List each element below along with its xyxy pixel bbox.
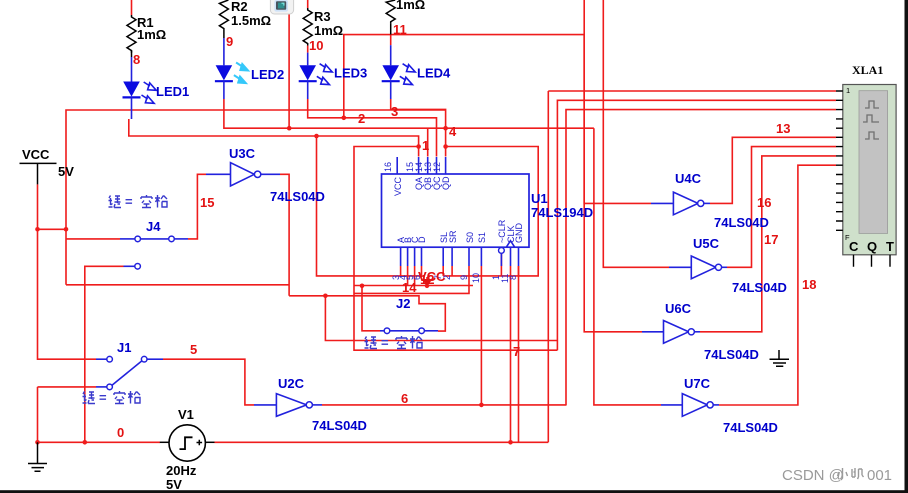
svg-text:1: 1 [422,138,429,153]
wire XLA ch2 [557,100,836,350]
resistor R2 [219,0,271,38]
svg-text:16: 16 [383,162,393,172]
svg-text:=: = [125,194,133,209]
op-amp U6C inverter [642,301,759,362]
voltage source V1 [160,407,215,492]
svg-text:9: 9 [226,34,233,49]
switch J2 [365,296,439,350]
LED LED1 [123,57,190,119]
wire bottom ground rail [38,266,549,442]
border bottom [0,490,908,493]
wire XLA ch3 and S1/net6 column [325,110,836,406]
svg-text:U1: U1 [531,191,548,206]
svg-text:SR: SR [448,230,458,243]
svg-text:14: 14 [402,280,417,295]
svg-text:1mΩ: 1mΩ [314,23,343,38]
svg-text:74LS04D: 74LS04D [723,420,778,435]
svg-text:J2: J2 [396,296,410,311]
svg-text:LED4: LED4 [417,66,451,81]
wire U3C output column down to lineP [280,174,289,295]
wire XLA ch1 clock column [548,91,836,442]
resistor R4 [386,0,425,35]
svg-text:5V: 5V [166,477,182,492]
svg-text:CSDN @: CSDN @ [782,467,844,484]
svg-text:10: 10 [471,273,481,283]
node net6 S1 dot [479,403,484,408]
op-amp U7C inverter [661,376,778,435]
wire net4 LED2 row to pin14 and east column [224,99,594,157]
switch J1 [83,340,164,405]
svg-text:1mΩ: 1mΩ [396,0,425,12]
svg-text:=: = [381,335,389,350]
wire VCC vertical and J1 feeds [38,184,97,442]
node pin12 lower dot [443,144,448,149]
svg-text:J1: J1 [117,340,131,355]
svg-text:VCC: VCC [393,176,403,196]
VCC power symbol [20,147,75,184]
node VCC dot2 [64,227,69,232]
wire VCC red symbol drop [426,277,428,286]
wire QD east line to SR/GND row [443,147,538,276]
svg-text:LED2: LED2 [251,67,284,82]
left pin stubs [836,91,843,230]
svg-text:QD: QD [441,176,451,190]
op-amp U2C inverter [254,376,367,433]
watermark [782,467,892,484]
wire VCC distribution top: col66 + y110 line [66,110,446,285]
logic analyzer XLA1 [836,63,896,267]
svg-text:S1: S1 [477,232,487,243]
svg-text:LED1: LED1 [156,84,189,99]
red VCC net symbol with 12 overlap [418,269,446,287]
switch J4 [109,194,189,269]
svg-text:R3: R3 [314,9,331,24]
svg-text:13: 13 [776,121,790,136]
wire net5 J1 pole to U2C input [163,359,254,405]
wire SL SR stubs to QD row [443,266,452,276]
ground right [770,350,790,366]
node pin12 upper dot [443,126,448,131]
wire S0 row [354,266,469,293]
wire net3 LED4 cathode to QD column [391,99,446,157]
svg-text:18: 18 [802,277,816,292]
svg-text:1.5mΩ: 1.5mΩ [231,13,271,28]
svg-text:S0: S0 [465,232,475,243]
svg-text:16: 16 [757,195,771,210]
svg-text:001: 001 [867,467,892,484]
svg-text:U2C: U2C [278,376,305,391]
node pin15 dot [416,144,421,149]
svg-text:1mΩ: 1mΩ [137,27,166,42]
wire J4 pole feed [66,238,120,240]
svg-text:11: 11 [393,22,407,37]
wire net15 J4 to U3C input [188,174,206,239]
node LED2 row dot [287,126,292,131]
svg-text:D: D [417,236,427,243]
node net2 dot [342,116,347,121]
node ground rail dot2 [83,440,88,445]
svg-text:J4: J4 [146,219,161,234]
svg-text:20Hz: 20Hz [166,463,197,478]
bottom pins [854,255,891,267]
svg-text:U3C: U3C [229,146,256,161]
svg-text:12: 12 [432,162,442,172]
LED LED4 [382,35,451,99]
svg-text:74LS04D: 74LS04D [704,347,759,362]
op-amp U3C inverter [206,146,325,204]
svg-text:5: 5 [190,342,197,357]
wire net6 U2C out to S1 [322,266,566,405]
svg-text:8: 8 [133,52,140,67]
wire net11 horizontal R4/LED4 rail [344,35,584,118]
resistor R1 [127,0,166,57]
CLK edge triangle [506,241,514,248]
svg-text:Q: Q [867,239,877,254]
wire net13 U4C out to XLA [710,137,836,203]
resistor R3 [303,0,343,46]
svg-text:0: 0 [117,425,124,440]
svg-text:74LS04D: 74LS04D [714,215,769,230]
svg-text:V1: V1 [178,407,194,422]
wire net18 U7C out to XLA [719,165,836,405]
svg-text:6: 6 [401,391,408,406]
svg-text:=: = [99,390,107,405]
svg-text:74LS04D: 74LS04D [270,189,325,204]
svg-text:LED3: LED3 [334,66,367,81]
svg-text:10: 10 [309,38,323,53]
node lineP dot [323,294,328,299]
wire net2 LED3 to pin13 [308,99,437,157]
node ground rail dot1 [35,440,40,445]
svg-text:VCC: VCC [22,147,50,162]
wire lineP J2-right loop [66,285,445,331]
svg-text:74LS04D: 74LS04D [732,280,787,295]
bottom pin stubs [401,247,519,266]
node VCC arrow dot [425,284,430,289]
svg-text:15: 15 [200,195,214,210]
svg-text:C: C [849,239,859,254]
svg-text:9: 9 [459,275,469,280]
node LED1 row dot [314,134,319,139]
wire net14 row B C J2-left [354,266,473,331]
svg-text:XLA1: XLA1 [852,63,883,77]
wire pinA feedback to LED1 row [317,136,422,276]
wire LED1 row to pin15 [129,119,419,157]
svg-text:U4C: U4C [675,171,702,186]
svg-text:17: 17 [764,232,778,247]
svg-text:GND: GND [514,223,524,244]
svg-text:4: 4 [449,124,457,139]
wire top column to net4 dot [288,0,290,128]
wire net17 U6C out to XLA [700,156,836,332]
op-amp U4C inverter [651,171,769,230]
node net14 J2 dot [360,284,365,289]
svg-text:8: 8 [508,275,518,280]
LED LED3 [299,46,368,99]
svg-text:R2: R2 [231,0,248,14]
svg-text:7: 7 [513,344,520,359]
svg-text:2: 2 [358,111,365,126]
wire J4 throw2 to bottom rail [85,266,124,442]
wire net16 U5C out to XLA [727,147,836,268]
svg-text:T: T [886,239,894,254]
LED LED2 [215,38,284,99]
wire QB column to U7C input [594,128,661,405]
op-amp U1 74LS194D chip [382,157,594,283]
svg-text:74LS04D: 74LS04D [312,418,367,433]
svg-text:U5C: U5C [693,236,720,251]
svg-text:5V: 5V [58,164,74,179]
wire net11 column to U4C input [584,35,651,204]
node CLK bottom dot [508,440,513,445]
ground left [28,442,47,471]
wire top-edge column to U5C input [603,0,669,267]
svg-text:3: 3 [391,104,398,119]
toolbar icon overlay [270,0,293,14]
pin 1 CLR bubble [499,248,505,254]
svg-text:U6C: U6C [665,301,692,316]
border right [905,0,908,493]
svg-text:1: 1 [846,86,850,95]
op-amp U5C inverter [669,236,787,295]
svg-text:U7C: U7C [684,376,711,391]
top pin stubs [397,157,445,174]
wire net1 QA west branch [354,147,557,351]
node VCC dot1 [35,227,40,232]
wire top-edge column to U6C input [584,0,642,332]
svg-text:74LS194D: 74LS194D [531,205,593,220]
